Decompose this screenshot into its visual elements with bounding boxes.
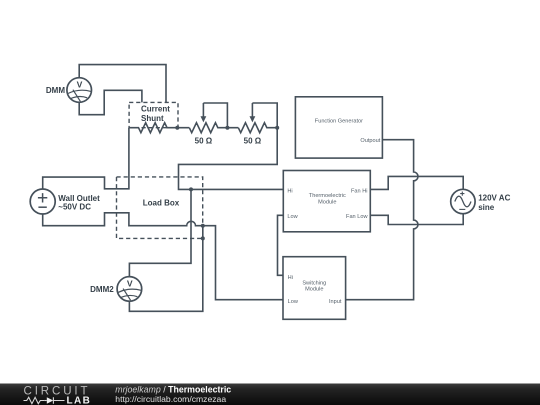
load box dashed outline [117,177,203,239]
wire DMM2 bottom to load box bottom node [129,226,202,312]
svg-text:~50V DC: ~50V DC [58,203,91,212]
wire Fan Low to AC source bottom [370,214,463,225]
svg-text:Hi: Hi [288,275,293,281]
svg-text:sine: sine [478,203,495,212]
svg-text:Current: Current [141,105,170,114]
node junction dot pot1 wiper tie [225,126,229,130]
wire wall outlet bottom along load box to switching Low [43,213,283,300]
label Wall Outlet ~50V DC [58,194,100,211]
svg-text:DMM2: DMM2 [90,285,114,294]
svg-text:Fan Hi: Fan Hi [351,188,367,194]
svg-text:Outpout: Outpout [360,138,380,144]
node junction dot on dashed bottom edge [201,236,205,240]
potentiometer R3 50ohm [238,103,277,133]
svg-text:120V AC: 120V AC [478,193,510,202]
switching module box U2 [283,257,346,320]
voltmeter DMM2 [117,277,142,302]
node junction dot pot2 wiper tie [275,126,279,130]
svg-text:http://circuitlab.com/cmzezaa: http://circuitlab.com/cmzezaa [115,394,226,404]
wire pot2 down-left to thermoelectric Hi [179,128,284,190]
svg-text:Shunt: Shunt [141,114,164,123]
wire DMM1 bottom terminal zigzag to shunt left side [79,90,142,114]
resistor R1 current shunt [129,123,189,133]
svg-text:Function Generator: Function Generator [315,118,363,124]
svg-text:Low: Low [287,214,298,220]
labels thermoelectric module [287,188,368,220]
svg-text:Module: Module [318,199,336,205]
labels function generator [315,118,381,143]
svg-text:Fan Low: Fan Low [346,214,368,220]
voltmeter DMM1 [67,78,92,103]
svg-text:Module: Module [305,286,323,292]
potentiometer R2 50ohm [189,103,238,133]
thermoelectric module box U1 [283,171,370,232]
label 120V AC sine [478,193,510,212]
labels switching module [288,275,342,305]
svg-text:50 Ω: 50 Ω [244,137,262,146]
wall outlet source V1 [30,189,55,214]
svg-text:Input: Input [329,299,342,305]
wire wall outlet top to shunt left [43,128,129,189]
svg-text:V: V [77,80,83,90]
wire thermoelectric Low to switching Hi [278,215,284,275]
wire function generator output bus to switching Input (hops two fan wires) [346,140,418,300]
node junction dot Hi wire to DMM2 [189,187,193,191]
wire DMM2 top to Hi node [129,189,191,276]
svg-text:Thermoelectric: Thermoelectric [309,193,346,199]
svg-text:Hi: Hi [287,188,292,194]
svg-text:Low: Low [288,299,299,305]
function generator box U3 [295,97,382,158]
svg-text:DMM: DMM [46,86,65,95]
label Current Shunt [141,105,170,123]
node junction dot load box bottom to DMM2 minus [201,224,205,228]
node junction dot shunt/pot1 [175,126,179,130]
wire Fan Hi to AC source top [370,176,463,189]
svg-text:V: V [127,279,133,289]
logo resistor zigzag and diode [24,397,65,403]
AC source V2 120V sine [451,189,475,213]
wire DMM1 top terminal to shunt right side [79,65,166,103]
svg-text:50 Ω: 50 Ω [195,137,213,146]
current shunt dashed box [129,102,178,127]
svg-text:LAB: LAB [67,395,92,405]
svg-text:Load Box: Load Box [143,199,180,208]
